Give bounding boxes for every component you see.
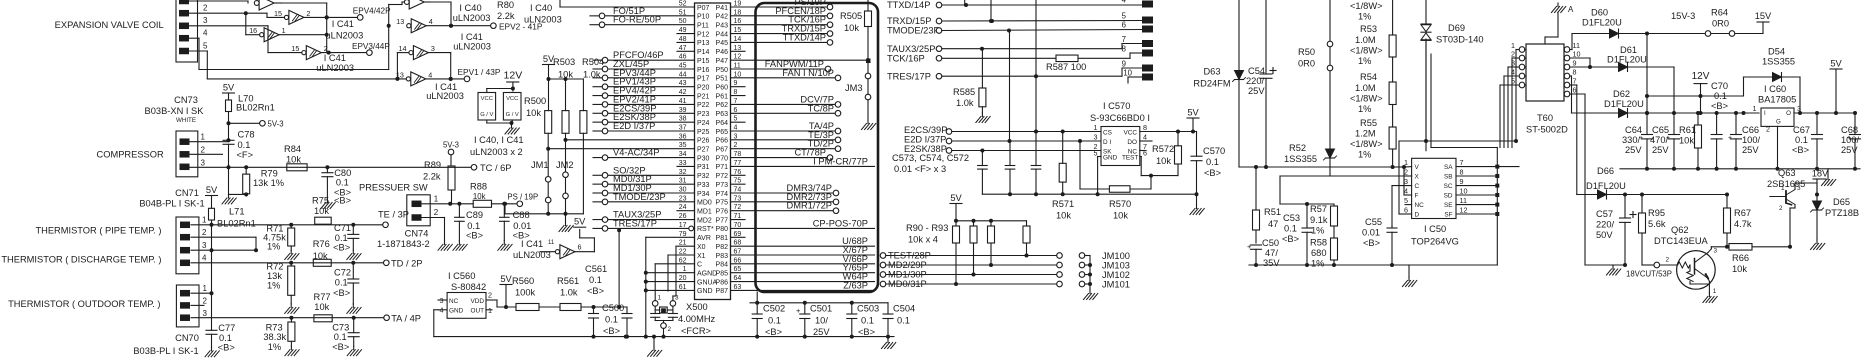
text MCU right pin labels: [765, 0, 868, 290]
svg-text:P82: P82: [716, 244, 729, 251]
svg-text:P33: P33: [697, 182, 710, 189]
svg-text:1: 1: [282, 26, 286, 35]
svg-text:PS / 19P: PS / 19P: [507, 193, 538, 202]
svg-text:220/: 220/: [1596, 220, 1615, 230]
svg-text:0.01 <F> x 3: 0.01 <F> x 3: [894, 164, 946, 174]
svg-text:D62: D62: [1613, 89, 1630, 99]
ground A: [1552, 3, 1575, 14]
svg-text:P43: P43: [716, 23, 729, 30]
jumper JM2: [556, 160, 574, 199]
capacitor C501: [796, 303, 832, 337]
svg-text:1: 1: [1753, 104, 1757, 113]
svg-text:R572: R572: [1152, 144, 1174, 154]
svg-text:PTZ18B: PTZ18B: [1825, 208, 1859, 218]
jumper JM1: [531, 160, 551, 203]
text R90-R93: [906, 223, 948, 245]
ferrite-bead L70: [226, 94, 275, 113]
svg-text:<1/8W>: <1/8W>: [1350, 1, 1383, 11]
svg-text:4: 4: [203, 29, 208, 38]
capacitor C570: [1191, 132, 1225, 195]
resistor R84: [284, 144, 307, 171]
svg-text:25V: 25V: [813, 327, 830, 337]
svg-text:EXPANSION VALVE COIL: EXPANSION VALVE COIL: [55, 20, 164, 30]
svg-text:5: 5: [1094, 149, 1098, 158]
svg-text:P07: P07: [697, 5, 710, 12]
svg-text:10k: 10k: [526, 108, 541, 118]
power 18V: [1812, 169, 1829, 195]
svg-text:10k: 10k: [1113, 211, 1128, 221]
svg-text:SA: SA: [1444, 164, 1453, 171]
svg-text:<1/8W>: <1/8W>: [1350, 94, 1383, 104]
wire: [1239, 0, 1266, 167]
wire: [227, 112, 260, 139]
jumper JM3: [845, 59, 871, 121]
svg-text:2: 2: [488, 291, 492, 300]
svg-text:uLN2003: uLN2003: [453, 13, 491, 23]
svg-text:P51: P51: [716, 76, 729, 83]
inverter U-C41a: [274, 9, 357, 25]
svg-text:4.7k: 4.7k: [1734, 219, 1752, 229]
svg-text:R570: R570: [1109, 199, 1131, 209]
ground: [505, 125, 519, 135]
svg-text:0.1: 0.1: [589, 275, 602, 285]
capacitor C503: [847, 303, 879, 337]
ground: [285, 250, 299, 260]
svg-text:I C50: I C50: [1424, 224, 1446, 234]
svg-text:C53: C53: [1283, 213, 1300, 223]
wire: [487, 89, 514, 126]
svg-text:2: 2: [306, 9, 310, 18]
svg-text:TD / 2P: TD / 2P: [391, 259, 423, 269]
svg-text:I C41: I C41: [461, 32, 483, 42]
svg-text:I C560: I C560: [448, 271, 475, 281]
svg-text:0.01: 0.01: [513, 221, 531, 231]
svg-text:3: 3: [1797, 185, 1801, 192]
wire: [191, 220, 384, 293]
capacitor C89: [455, 204, 483, 241]
connector expansion-valve: [176, 0, 208, 62]
wire: [190, 138, 471, 194]
svg-text:1.0M: 1.0M: [1355, 83, 1376, 93]
svg-text:I C40, I C41: I C40, I C41: [474, 135, 524, 145]
svg-text:1: 1: [658, 295, 662, 302]
svg-text:1%: 1%: [267, 281, 280, 291]
svg-text:uLN2003: uLN2003: [316, 63, 354, 73]
svg-text:C: C: [697, 262, 702, 269]
resistor R58: [1310, 238, 1338, 269]
svg-text:D I: D I: [1103, 139, 1111, 146]
text CN73: [145, 95, 205, 124]
svg-text:P23: P23: [697, 111, 710, 118]
svg-text:C501: C501: [810, 304, 832, 314]
svg-text:CS: CS: [1103, 129, 1112, 136]
wire primary gnd bus: [1249, 263, 1497, 277]
svg-text:4: 4: [429, 17, 433, 26]
wire secondary gnd bus: [1620, 167, 1860, 176]
svg-text:BL02Rn1: BL02Rn1: [217, 219, 256, 229]
svg-text:13k: 13k: [267, 271, 282, 281]
svg-text:C503: C503: [857, 304, 879, 314]
wire: [750, 292, 888, 305]
svg-text:P50: P50: [716, 67, 729, 74]
svg-text:D1FL20U: D1FL20U: [1604, 99, 1644, 109]
wire 12V link: [1645, 34, 1744, 116]
svg-text:GND: GND: [697, 288, 713, 295]
svg-text:P71: P71: [716, 164, 729, 171]
svg-text:C88: C88: [513, 210, 530, 220]
resistor R64 (0R0 link): [1711, 8, 1735, 37]
svg-text:C504: C504: [893, 304, 915, 314]
svg-text:1: 1: [203, 284, 208, 293]
svg-text:0.1: 0.1: [861, 316, 874, 326]
svg-text:R77: R77: [314, 292, 331, 302]
svg-text:C72: C72: [334, 268, 351, 278]
svg-text:VCC: VCC: [1124, 129, 1138, 136]
resistor R572: [1152, 132, 1182, 176]
svg-text:CN70: CN70: [175, 333, 199, 343]
svg-text:TC / 6P: TC / 6P: [480, 163, 512, 173]
svg-text:680: 680: [1311, 248, 1327, 258]
capacitor C502: [752, 303, 785, 337]
capacitor C50: [1247, 238, 1280, 268]
resistor R50 (0R0 link): [1298, 41, 1333, 71]
svg-text:0.1: 0.1: [1795, 135, 1808, 145]
svg-text:4: 4: [1143, 133, 1147, 142]
svg-text:15V: 15V: [1755, 11, 1772, 21]
power 5V: [500, 274, 512, 309]
svg-text:uLN2003: uLN2003: [426, 91, 464, 101]
resistor R89: [423, 155, 455, 204]
svg-text:NC: NC: [1415, 202, 1425, 209]
svg-text:100/: 100/: [1841, 135, 1860, 145]
svg-text:R95: R95: [1648, 208, 1665, 218]
svg-text:5V: 5V: [1830, 59, 1842, 69]
svg-text:P12: P12: [697, 31, 710, 38]
svg-text:P85: P85: [716, 271, 729, 278]
svg-text:C77: C77: [218, 323, 235, 333]
capacitor C77: [206, 323, 235, 353]
svg-text:P84: P84: [716, 262, 729, 269]
resistor R91: [970, 221, 977, 275]
svg-text:R504: R504: [582, 57, 604, 67]
capacitor C72: [333, 261, 359, 304]
svg-text:CN71: CN71: [175, 188, 199, 198]
ic IC40-vcc-block: [478, 93, 496, 121]
svg-text:P47: P47: [716, 58, 729, 65]
ground: [347, 346, 361, 356]
svg-text:uLN2003 x 2: uLN2003 x 2: [470, 147, 523, 157]
svg-text:8: 8: [1573, 68, 1577, 77]
ic IC50 TOP264VG: [1404, 158, 1468, 246]
svg-text:P24: P24: [697, 120, 710, 127]
resistor R71: [263, 223, 295, 252]
svg-text:JM100: JM100: [1102, 251, 1130, 261]
svg-text:RST*: RST*: [697, 226, 714, 233]
svg-text:25V: 25V: [1625, 145, 1642, 155]
capacitor C65: [1650, 111, 1680, 169]
svg-text:1%: 1%: [268, 342, 281, 352]
power 5V: [543, 54, 555, 111]
svg-text:S-80842: S-80842: [451, 282, 486, 292]
svg-text:D54: D54: [1768, 47, 1785, 57]
svg-text:R55: R55: [1360, 118, 1377, 128]
svg-text:P31: P31: [697, 164, 710, 171]
text COMPRESSOR: [97, 150, 164, 160]
svg-text:7: 7: [1122, 35, 1126, 44]
capacitor C68: [1830, 111, 1861, 169]
wire gate bus: [282, 2, 453, 81]
svg-text:BL02Rn1: BL02Rn1: [236, 103, 275, 113]
svg-text:3: 3: [202, 241, 207, 250]
svg-text:P87: P87: [716, 288, 729, 295]
svg-text:CN73: CN73: [174, 95, 198, 105]
svg-text:3: 3: [1404, 177, 1408, 186]
svg-text:8: 8: [1460, 168, 1464, 177]
node 5V-3 (a): [260, 120, 284, 129]
ground: [321, 199, 335, 209]
svg-text:C55: C55: [1365, 217, 1382, 227]
resistor R571: [1052, 132, 1074, 221]
svg-text:3: 3: [1714, 248, 1718, 255]
diode D54: [1742, 47, 1803, 116]
svg-text:P77: P77: [716, 217, 729, 224]
svg-text:0.1: 0.1: [897, 316, 910, 326]
svg-text:E2CS/39P: E2CS/39P: [904, 125, 947, 135]
svg-text:TTXD/14P: TTXD/14P: [783, 32, 826, 42]
svg-text:DO: DO: [1127, 139, 1137, 146]
ground: [285, 346, 299, 356]
svg-text:4.00MHz: 4.00MHz: [678, 314, 716, 324]
svg-text:P21: P21: [697, 93, 710, 100]
svg-text:L71: L71: [229, 207, 245, 217]
svg-text:COMPRESSOR: COMPRESSOR: [97, 150, 164, 160]
svg-text:10: 10: [1573, 50, 1581, 59]
svg-text:G / V: G / V: [506, 112, 519, 118]
svg-text:WHITE: WHITE: [176, 117, 196, 124]
svg-text:MD1: MD1: [697, 209, 712, 216]
ground: [976, 113, 990, 123]
jumper JM100: [1079, 251, 1130, 290]
svg-text:10k x 4: 10k x 4: [908, 235, 938, 245]
svg-text:AGND: AGND: [697, 271, 717, 278]
svg-text:THERMISTOR ( PIPE TEMP. ): THERMISTOR ( PIPE TEMP. ): [35, 226, 161, 236]
node TE/3P: [378, 210, 409, 228]
svg-text:MD0: MD0: [697, 200, 712, 207]
ground: [453, 241, 467, 251]
text IC41-11: [513, 239, 555, 260]
svg-text:9: 9: [1122, 60, 1126, 69]
svg-text:C70: C70: [1711, 81, 1728, 91]
svg-text:C: C: [1415, 183, 1420, 190]
svg-text:SB: SB: [1444, 174, 1453, 181]
svg-text:C66: C66: [1742, 125, 1759, 135]
ground: [882, 339, 896, 349]
svg-text:470/: 470/: [1650, 135, 1669, 145]
wire TOP left pins: [1280, 165, 1412, 226]
ferrite-bead L71: [209, 207, 256, 229]
text serial labels: [887, 0, 1133, 81]
svg-text:NC: NC: [449, 298, 459, 305]
svg-text:GND: GND: [1103, 154, 1118, 161]
wire MCU right pins: [731, 4, 875, 290]
resistor R72: [266, 261, 294, 304]
capacitor C88: [500, 204, 532, 241]
svg-text:P45: P45: [716, 40, 729, 47]
power 5V: [223, 83, 235, 101]
svg-text:SF: SF: [1444, 212, 1452, 219]
resistor R500: [524, 96, 552, 133]
svg-text:5V: 5V: [574, 217, 586, 227]
power 12V: [1692, 71, 1710, 115]
svg-text:2: 2: [1511, 50, 1515, 59]
svg-text:TEST: TEST: [1122, 154, 1138, 161]
text IC40 IC41 x2: [470, 135, 524, 157]
svg-text:MD2: MD2: [697, 217, 712, 224]
svg-text:CN74: CN74: [405, 229, 429, 239]
text EXPANSION VALVE COIL: [55, 20, 164, 30]
svg-text:C570: C570: [1203, 146, 1225, 156]
text C573 group: [892, 153, 969, 174]
svg-text:25V: 25V: [1841, 145, 1858, 155]
capacitor C57: [1596, 195, 1636, 266]
transistor Q63: [1767, 168, 1819, 247]
svg-text:6: 6: [1404, 206, 1408, 215]
svg-text:1%: 1%: [1358, 56, 1371, 66]
resistor R93: [1023, 226, 1030, 256]
capacitor C573: [978, 151, 988, 195]
svg-text:5V-3: 5V-3: [443, 141, 459, 150]
ground: [498, 241, 512, 251]
svg-text:P34: P34: [697, 191, 710, 198]
wire: [942, 3, 1142, 83]
svg-text:G / V: G / V: [480, 112, 493, 118]
svg-text:1: 1: [201, 133, 206, 142]
capacitor C504: [883, 303, 915, 337]
svg-text:TMODE/23P: TMODE/23P: [613, 192, 666, 202]
resistor R75: [312, 196, 351, 225]
svg-text:<B>: <B>: [1711, 101, 1728, 111]
diode D61: [1570, 45, 1674, 113]
ic IC60 BA17805: [1753, 84, 1831, 169]
resistor R503: [553, 57, 575, 133]
svg-text:P65: P65: [716, 129, 729, 136]
wire vertical drops: [965, 0, 1038, 166]
capacitor C78: [223, 130, 255, 168]
svg-text:5V-3: 5V-3: [268, 120, 284, 129]
resistor R505: [840, 0, 872, 73]
svg-text:100k: 100k: [515, 288, 536, 298]
svg-text:<1/8W>: <1/8W>: [1350, 139, 1383, 149]
resistor R53: [1350, 24, 1396, 66]
svg-text:R53: R53: [1360, 24, 1377, 34]
svg-text:R587 100: R587 100: [1046, 62, 1086, 72]
svg-text:<B>: <B>: [218, 343, 235, 353]
svg-text:0.1: 0.1: [1284, 224, 1297, 234]
power 12V: [504, 70, 523, 92]
svg-text:R84: R84: [284, 144, 301, 154]
svg-text:5: 5: [1511, 77, 1515, 86]
svg-text:P13: P13: [697, 40, 710, 47]
svg-text:10: 10: [1123, 69, 1132, 78]
svg-text:THERMISTOR ( OUTDOOR TEMP. ): THERMISTOR ( OUTDOOR TEMP. ): [8, 299, 160, 309]
svg-text:uLN2003: uLN2003: [326, 31, 364, 41]
svg-text:THERMISTOR ( DISCHARGE TEMP. ): THERMISTOR ( DISCHARGE TEMP. ): [1, 255, 161, 265]
resistor R76: [313, 239, 331, 266]
svg-text:RD24FM: RD24FM: [1193, 79, 1230, 89]
svg-text:<B>: <B>: [765, 327, 782, 337]
svg-text:P67: P67: [716, 147, 729, 154]
svg-text:13: 13: [396, 70, 404, 79]
ground: [1190, 205, 1204, 215]
svg-text:I C60: I C60: [1764, 84, 1786, 94]
svg-text:4: 4: [1122, 0, 1127, 5]
svg-text:P64: P64: [716, 120, 729, 127]
ground: [1403, 277, 1417, 287]
diode D63: [1193, 67, 1245, 89]
ic MCU outline: [695, 3, 731, 300]
svg-text:3: 3: [203, 16, 208, 25]
svg-text:1.0M: 1.0M: [1355, 35, 1376, 45]
wire: [1330, 0, 1412, 176]
wire: [189, 1, 408, 79]
inverter U-C41b: [249, 26, 327, 42]
node EPV1/43P: [458, 67, 501, 82]
svg-text:50V: 50V: [1596, 230, 1613, 240]
capacitor C67: [1792, 111, 1823, 169]
inverter top-left (cut): [254, 0, 282, 10]
ground: [285, 304, 299, 314]
svg-text:6: 6: [578, 243, 582, 252]
svg-text:P27: P27: [697, 147, 710, 154]
resistor R79: [229, 165, 285, 196]
svg-text:10k: 10k: [1056, 211, 1071, 221]
capacitor C73: [332, 316, 359, 352]
svg-text:TC/8P: TC/8P: [808, 103, 834, 113]
text MCU pin numbers L: [679, 1, 687, 291]
node 15V-3: [1671, 11, 1711, 36]
svg-text:DTC143EUA: DTC143EUA: [1654, 236, 1709, 246]
ground: [347, 250, 361, 260]
svg-text:<1/8W>: <1/8W>: [1350, 46, 1383, 56]
svg-text:R75: R75: [312, 196, 329, 206]
connector CN70: [176, 284, 207, 327]
svg-text:8: 8: [1143, 123, 1147, 132]
svg-text:1SS355: 1SS355: [1762, 57, 1795, 67]
jumper JM101: [1079, 280, 1130, 290]
svg-text:P22: P22: [697, 102, 710, 109]
text MCU pin numbers R: [734, 1, 742, 291]
svg-text:D65: D65: [1833, 197, 1850, 207]
ic IC560: [438, 271, 492, 318]
svg-text:C68: C68: [1841, 125, 1858, 135]
inverter U-C41g: [540, 230, 594, 259]
svg-text:R571: R571: [1052, 199, 1074, 209]
svg-text:2: 2: [202, 228, 207, 237]
svg-text:R560: R560: [512, 276, 534, 286]
capacitor C64: [1622, 111, 1653, 169]
wire: [886, 335, 890, 339]
svg-text:1-1871843-2: 1-1871843-2: [377, 239, 430, 249]
svg-text:14: 14: [399, 44, 407, 53]
text I C41 uLN2003 (b): [316, 53, 354, 73]
text THERMISTOR OUTDOOR: [8, 299, 160, 309]
svg-text:2: 2: [1666, 257, 1670, 264]
jumper JM103: [1079, 261, 1130, 271]
diode D66: [1570, 85, 1727, 267]
text MCU ports R: [716, 5, 729, 295]
svg-text:0.1: 0.1: [1714, 91, 1727, 101]
svg-text:P86: P86: [716, 279, 729, 286]
